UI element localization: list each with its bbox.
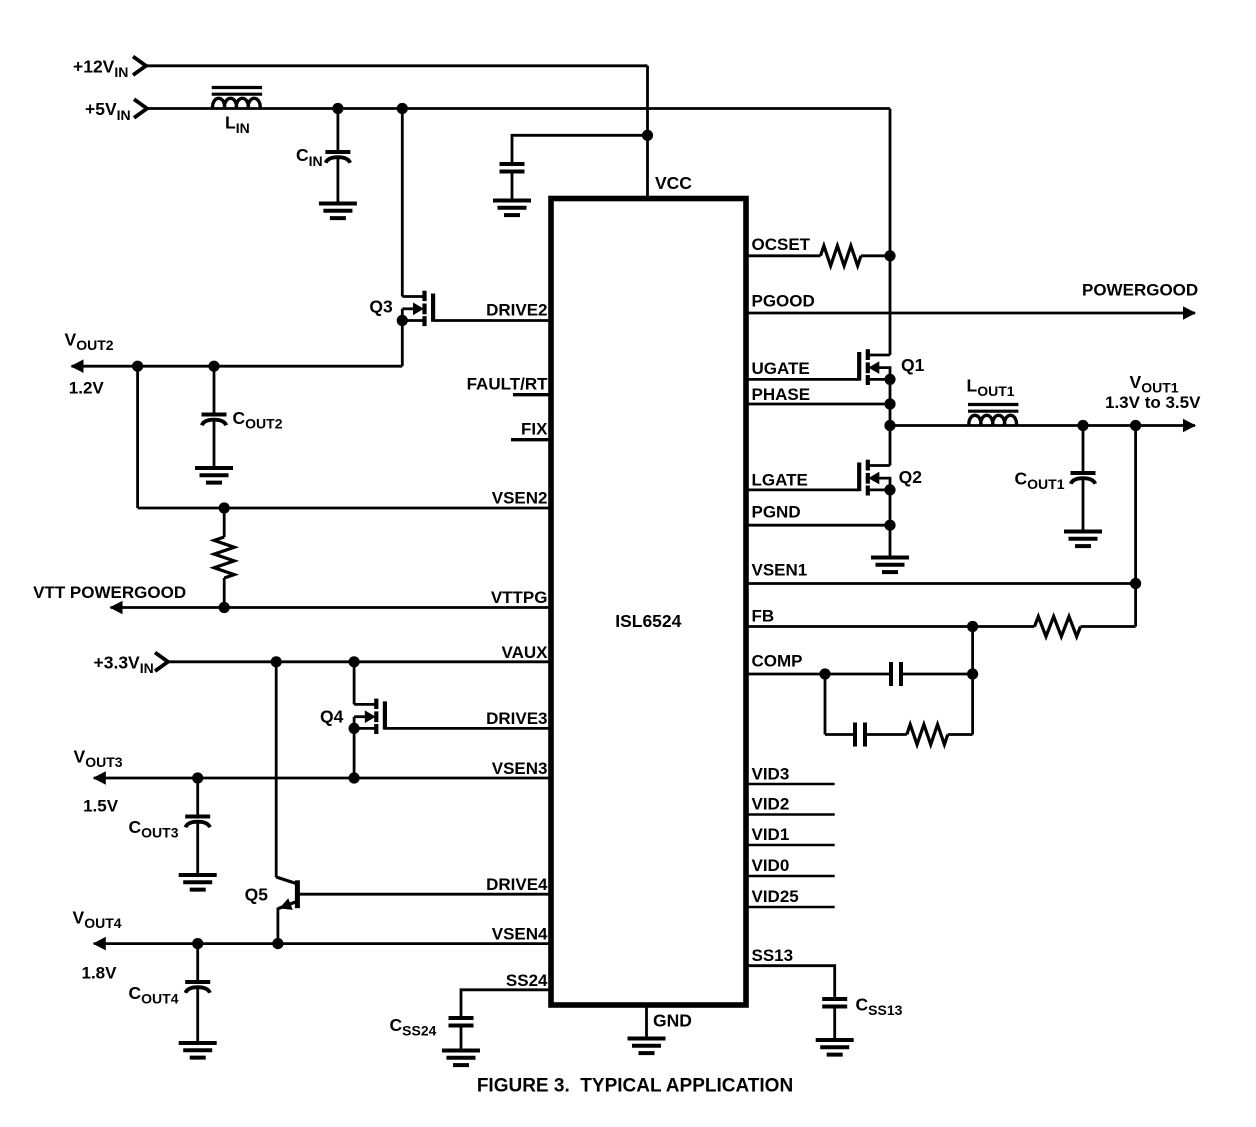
svg-text:VSEN3: VSEN3 — [492, 759, 548, 778]
svg-text:FB: FB — [752, 607, 775, 626]
svg-text:1.3V to 3.5V: 1.3V to 3.5V — [1105, 393, 1201, 412]
svg-text:DRIVE3: DRIVE3 — [486, 709, 547, 728]
svg-text:VID2: VID2 — [752, 795, 790, 814]
svg-text:VAUX: VAUX — [502, 643, 549, 662]
svg-text:OCSET: OCSET — [752, 235, 811, 254]
svg-text:DRIVE4: DRIVE4 — [486, 875, 548, 894]
svg-text:PHASE: PHASE — [752, 385, 811, 404]
svg-text:FIGURE 3. TYPICAL APPLICATION: FIGURE 3. TYPICAL APPLICATION — [477, 1075, 793, 1096]
svg-text:SS13: SS13 — [752, 946, 794, 965]
svg-text:1.2V: 1.2V — [69, 379, 105, 398]
svg-text:VSEN2: VSEN2 — [492, 489, 548, 508]
svg-text:SS24: SS24 — [506, 971, 548, 990]
svg-text:VID0: VID0 — [752, 856, 790, 875]
svg-text:Q2: Q2 — [899, 467, 923, 487]
svg-text:Q5: Q5 — [245, 884, 269, 904]
svg-text:COMP: COMP — [752, 652, 803, 671]
svg-text:DRIVE2: DRIVE2 — [486, 301, 547, 320]
svg-text:VID25: VID25 — [752, 887, 799, 906]
svg-text:FIX: FIX — [521, 420, 548, 439]
svg-text:GND: GND — [653, 1011, 692, 1031]
svg-text:VTTPG: VTTPG — [491, 588, 548, 607]
svg-text:VSEN1: VSEN1 — [752, 561, 808, 580]
svg-text:ISL6524: ISL6524 — [615, 611, 681, 631]
svg-text:VSEN4: VSEN4 — [492, 925, 548, 944]
svg-text:UGATE: UGATE — [752, 359, 810, 378]
svg-text:VID3: VID3 — [752, 765, 790, 784]
svg-text:Q4: Q4 — [320, 707, 344, 727]
svg-text:VCC: VCC — [655, 173, 692, 193]
svg-text:FAULT/RT: FAULT/RT — [467, 375, 549, 394]
svg-text:POWERGOOD: POWERGOOD — [1082, 280, 1198, 299]
svg-text:VTT POWERGOOD: VTT POWERGOOD — [33, 583, 186, 602]
svg-text:VID1: VID1 — [752, 825, 790, 844]
svg-text:1.8V: 1.8V — [82, 963, 118, 982]
svg-text:LGATE: LGATE — [752, 471, 808, 490]
svg-text:PGOOD: PGOOD — [752, 292, 815, 311]
svg-text:Q1: Q1 — [901, 355, 925, 375]
svg-text:1.5V: 1.5V — [83, 797, 119, 816]
svg-text:PGND: PGND — [752, 503, 801, 522]
svg-text:Q3: Q3 — [369, 297, 393, 317]
